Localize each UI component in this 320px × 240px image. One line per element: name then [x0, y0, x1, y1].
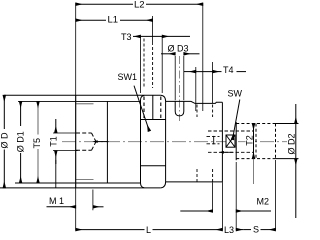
dimension T2 [253, 124, 255, 185]
dimension T1 [53, 119, 78, 188]
svg-text:M 1: M 1 [49, 196, 64, 206]
leader arrow at drill tip [97, 141, 108, 143]
dimension L with L3 and S [275, 160, 277, 230]
dimension D1 [20, 101, 22, 183]
hidden cone seat right end [207, 131, 254, 152]
svg-text:L1: L1 [108, 15, 119, 26]
dimension D3 [175, 56, 184, 100]
centerline (horizontal axis) [62, 141, 293, 143]
hidden drilled hole of left port [76, 133, 96, 150]
shank and threaded end M2 [166, 101, 223, 230]
svg-text:Ø D2: Ø D2 [286, 133, 296, 154]
svg-text:L2: L2 [134, 0, 145, 10]
svg-text:Ø D3: Ø D3 [168, 43, 189, 53]
svg-text:M2: M2 [257, 197, 270, 207]
dimension T4 [196, 62, 213, 111]
body outline left threaded section M1 [0, 95, 161, 188]
hidden thread runout dashes [144, 39, 213, 182]
svg-text:T3: T3 [121, 32, 132, 42]
hidden nut and tube [236, 122, 298, 160]
svg-text:T1: T1 [49, 136, 59, 147]
svg-text:S: S [253, 225, 259, 234]
dimension T5 [37, 101, 39, 183]
svg-text:L3: L3 [224, 225, 234, 234]
hex SW1 [141, 95, 166, 188]
svg-text:SW: SW [228, 89, 243, 99]
dimension L2 [202, 3, 204, 111]
dimension M2 [213, 162, 237, 230]
svg-text:SW1: SW1 [118, 72, 138, 82]
leader arrow at seat [224, 151, 233, 153]
svg-text:T5: T5 [32, 138, 42, 149]
vertical hole D3 [175, 101, 184, 116]
svg-text:Ø D1: Ø D1 [16, 131, 26, 152]
svg-text:Ø D: Ø D [0, 132, 10, 149]
dimension T3 [141, 36, 163, 93]
svg-text:T4: T4 [223, 65, 234, 75]
svg-text:T2: T2 [244, 135, 254, 146]
dimension L1 [152, 16, 154, 45]
cutting ring symbol [226, 135, 235, 147]
svg-text:L: L [146, 225, 151, 234]
extension line left face datum [75, 3, 77, 230]
dimension M1 [92, 190, 94, 211]
dimension D [3, 95, 5, 188]
centerline of vertical hole D3 [179, 56, 181, 121]
dimension D2 [295, 104, 297, 218]
